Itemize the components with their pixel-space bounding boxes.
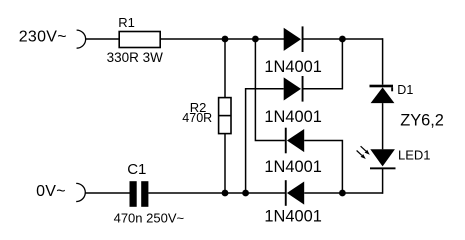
wire top rail down and right to rectifier diode 3 cathode xyxy=(255,39,285,141)
svg-text:0V~: 0V~ xyxy=(36,183,66,200)
rectifier diode 1 (1N4001, top, pointing right) xyxy=(284,28,301,51)
wire DC- up to LED1 cathode bar xyxy=(382,168,384,194)
LED LED1 (triangle pointing down onto cathode bar) xyxy=(370,149,395,166)
rectifier diode 2 (1N4001, second row, pointing right) xyxy=(284,77,301,100)
junction bottom rail / R2 xyxy=(222,190,229,197)
svg-text:330R 3W: 330R 3W xyxy=(107,50,164,65)
svg-text:470n 250V~: 470n 250V~ xyxy=(114,210,185,225)
wire connector 0V~ to C1 left plate xyxy=(85,192,129,194)
wire diode 3 anode down to DC- junction xyxy=(304,141,342,194)
zener diode D1 (cathode bar with hook, triangle pointing up) xyxy=(370,85,394,88)
svg-text:R1: R1 xyxy=(118,15,135,30)
wire bottom rail riser to rectifier diode 2 anode xyxy=(246,89,284,193)
wire C1 right plate to rectifier diode 4 cathode (net AC2, bottom rail) xyxy=(148,192,285,194)
connector pin 0V~ (open arc terminal) xyxy=(76,183,85,201)
wire DC+ down to zener D1 cathode xyxy=(382,38,384,84)
wire zener D1 anode to LED1 anode xyxy=(382,103,384,149)
junction top rail / R2 xyxy=(222,36,229,43)
junction top rail / drop to diode 3 xyxy=(252,36,259,43)
svg-text:LED1: LED1 xyxy=(398,148,431,163)
svg-text:1N4001: 1N4001 xyxy=(264,207,321,225)
rectifier diode 4 (1N4001, bottom, pointing left) xyxy=(285,180,287,206)
capacitor C1 (two plates) xyxy=(130,181,137,207)
LED1 light arrow 2 xyxy=(357,151,362,156)
svg-text:ZY6,2: ZY6,2 xyxy=(400,112,444,130)
resistor R2 (box symbol, split) xyxy=(219,98,231,134)
svg-text:230V~: 230V~ xyxy=(19,29,67,46)
junction bottom rail / riser to diode 2 xyxy=(242,190,249,197)
resistor R1 (box symbol) xyxy=(119,32,160,48)
wire R1 right to rectifier diode 1 anode (net AC1, top rail) xyxy=(160,38,284,40)
connector pin 230V~ (open arc terminal) xyxy=(77,30,86,48)
svg-text:1N4001: 1N4001 xyxy=(264,108,321,126)
wire top rail down to R2 top xyxy=(224,39,226,98)
svg-text:470R: 470R xyxy=(182,111,212,125)
wire diode 4 anode to DC- corner xyxy=(304,192,382,194)
svg-text:1N4001: 1N4001 xyxy=(264,58,321,76)
junction DC- xyxy=(339,190,346,197)
rectifier diode 3 (1N4001, third row, pointing left) xyxy=(285,128,287,154)
wire connector 230V~ to R1 left xyxy=(86,38,120,40)
wire diode 2 cathode up to DC+ junction xyxy=(304,39,343,89)
junction DC+ xyxy=(339,36,346,43)
svg-text:D1: D1 xyxy=(397,83,413,97)
LED1 light arrow 1 xyxy=(361,146,366,151)
svg-text:1N4001: 1N4001 xyxy=(264,158,321,176)
svg-text:C1: C1 xyxy=(127,161,146,178)
wire R2 bottom to bottom rail xyxy=(224,134,226,193)
wire diode 1 cathode to DC+ corner xyxy=(304,38,383,40)
